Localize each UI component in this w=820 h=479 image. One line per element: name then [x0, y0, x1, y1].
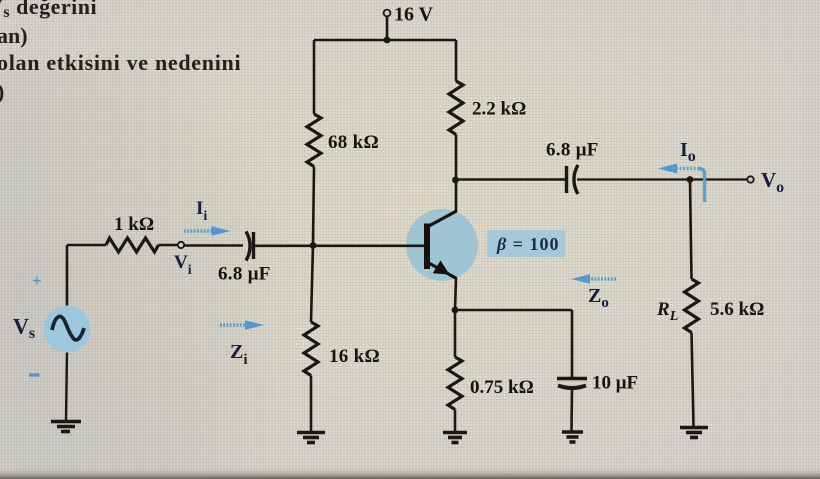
svg-text:+: +	[32, 271, 42, 290]
wire collector branch	[455, 135, 458, 213]
resistor 68k	[307, 114, 321, 167]
supply terminal 16V	[384, 10, 391, 17]
svg-text:6.8 μF: 6.8 μF	[546, 140, 599, 161]
wire bypass cap to ground	[570, 388, 573, 431]
transistor Q1	[427, 211, 457, 279]
ground (10uF)	[562, 432, 583, 442]
wire left branch lower	[311, 245, 313, 322]
wire bypass cap top	[571, 310, 574, 377]
resistor 1k	[106, 238, 159, 252]
svg-text:16 V: 16 V	[394, 4, 434, 26]
source Vs circle	[44, 306, 91, 353]
svg-text:0.75 kΩ: 0.75 kΩ	[470, 377, 534, 398]
ground (source)	[51, 422, 81, 432]
resistor RL 5.6k	[685, 279, 699, 333]
node base divider junction	[310, 242, 317, 249]
ground (16k)	[297, 433, 325, 443]
node emitter junction	[452, 307, 459, 314]
wire emitter horizontal	[455, 309, 572, 312]
wire source top horizontal	[67, 244, 106, 247]
ground (0.75k)	[443, 433, 467, 443]
svg-text:olan etkisini ve nedenini: olan etkisini ve nedenini	[0, 50, 241, 75]
svg-text:an): an)	[0, 23, 28, 48]
arrow Zo	[589, 277, 616, 281]
svg-text:2.2 kΩ: 2.2 kΩ	[472, 99, 526, 120]
emitter lead	[427, 262, 457, 279]
arrow Ii	[184, 229, 213, 233]
transistor emitter arrow	[433, 260, 450, 274]
page text line 1	[0, 0, 97, 21]
base bar	[424, 224, 430, 270]
svg-text:68 kΩ: 68 kΩ	[328, 132, 379, 153]
label beta box	[487, 230, 565, 257]
svg-text:5.6 kΩ: 5.6 kΩ	[710, 299, 764, 320]
terminal Vi	[178, 242, 184, 248]
capacitor CE 10uF	[557, 379, 587, 389]
wire emitter resistor top	[454, 310, 457, 357]
wire left branch upper	[313, 40, 316, 114]
collector lead	[427, 211, 457, 227]
wire left branch middle	[313, 167, 314, 246]
source Vs sine	[52, 316, 84, 340]
svg-text:1 kΩ: 1 kΩ	[114, 214, 154, 235]
arrow Zi	[220, 323, 247, 327]
wire top rail	[314, 39, 456, 42]
wire resistor to Vi	[159, 244, 178, 247]
ground (RL)	[680, 428, 708, 438]
resistor 2.2k	[449, 81, 463, 135]
wire cap to base	[255, 245, 424, 248]
svg-text:β = 100: β = 100	[496, 234, 560, 254]
wire 16k to ground	[310, 376, 313, 432]
node supply junction	[384, 37, 391, 44]
resistor 0.75k	[448, 357, 462, 409]
svg-text:): )	[0, 79, 4, 104]
wire emitter drop	[455, 278, 456, 310]
svg-text:10 μF: 10 μF	[592, 373, 638, 394]
capacitor C2 6.8uF output	[567, 165, 579, 194]
wire source up	[66, 245, 69, 306]
node load junction	[687, 176, 694, 183]
wire supply drop	[386, 17, 389, 41]
wire right branch upper	[455, 40, 458, 81]
capacitor C1 6.8uF input	[246, 232, 254, 261]
transistor Q1 highlight circle	[406, 209, 478, 281]
svg-text:Vs değerini: Vs değerini	[0, 0, 97, 21]
node collector output junction	[452, 177, 459, 184]
wire RL to ground	[692, 333, 694, 427]
wire output right segment	[577, 178, 747, 180]
wire Vi to cap	[185, 244, 244, 247]
wire output left segment	[456, 178, 566, 181]
resistor 16k	[304, 322, 318, 376]
wire 0.75k to ground	[454, 410, 457, 432]
svg-text:6.8 μF: 6.8 μF	[218, 264, 271, 285]
arrow Io	[675, 169, 705, 203]
wire RL top	[690, 180, 692, 280]
terminal Vo	[747, 176, 753, 182]
svg-text:16 kΩ: 16 kΩ	[329, 346, 380, 367]
label minus	[29, 373, 40, 376]
wire source down to ground	[66, 353, 67, 422]
